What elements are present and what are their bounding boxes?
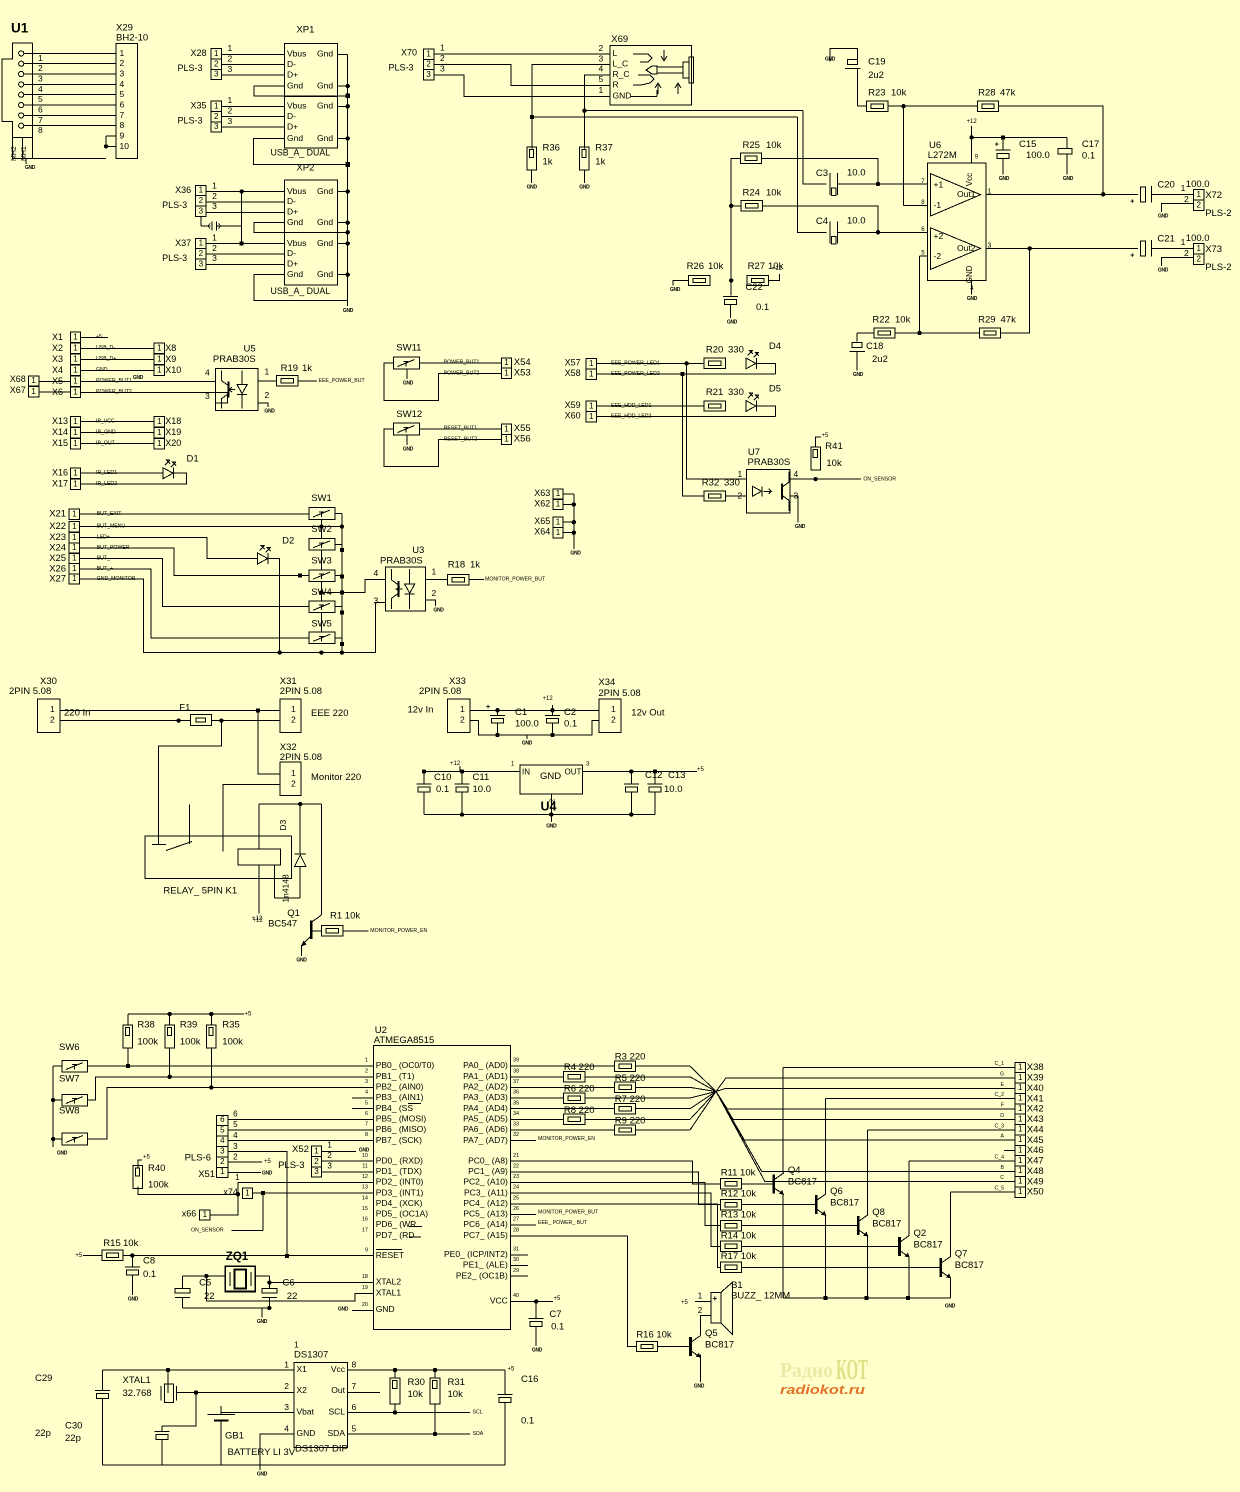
svg-text:BH2-10: BH2-10 xyxy=(116,32,148,43)
svg-text:1: 1 xyxy=(245,1188,250,1197)
wire Q4 collector xyxy=(783,1068,1015,1173)
svg-text:X41: X41 xyxy=(1027,1093,1044,1104)
svg-text:33: 33 xyxy=(513,1122,519,1128)
wire led2 node to R32 xyxy=(683,374,704,496)
svg-text:C5: C5 xyxy=(199,1277,211,1288)
capacitor C3 xyxy=(816,167,866,195)
svg-text:C_1: C_1 xyxy=(994,1061,1004,1067)
connector X30 xyxy=(38,699,61,733)
svg-text:13: 13 xyxy=(362,1185,368,1191)
svg-text:X17: X17 xyxy=(52,479,68,489)
wire Q1 emitter gnd xyxy=(301,945,303,956)
svg-text:C: C xyxy=(1000,1175,1004,1181)
connector X52 PLS-3 xyxy=(278,1144,322,1177)
svg-text:1: 1 xyxy=(460,704,465,714)
svg-text:1: 1 xyxy=(1018,1135,1023,1144)
pin numbers U2 left xyxy=(362,1058,368,1308)
switch SW12 xyxy=(394,409,423,435)
capacitor C17 xyxy=(1058,139,1099,162)
wire led1 node to U7 pin1 xyxy=(687,363,747,479)
ground X62-X65 xyxy=(570,550,581,556)
svg-text:3: 3 xyxy=(120,68,125,78)
svg-text:R25: R25 xyxy=(743,140,760,151)
svg-text:RELAY_ 5PIN K1: RELAY_ 5PIN K1 xyxy=(163,885,237,896)
svg-text:GND: GND xyxy=(1158,213,1169,219)
wire X27 GND_MONITOR bottom rail xyxy=(80,576,376,655)
svg-text:5: 5 xyxy=(599,74,604,84)
svg-text:X1: X1 xyxy=(52,332,63,342)
wire C17 gnd xyxy=(1066,154,1068,175)
connector X32 labels xyxy=(280,742,322,763)
ground C7 xyxy=(532,1347,543,1353)
wires U1 to X29 with pin numbers xyxy=(24,53,116,135)
svg-text:Vbus: Vbus xyxy=(287,49,306,59)
svg-text:0.1: 0.1 xyxy=(756,302,769,313)
svg-text:47k: 47k xyxy=(1000,87,1016,98)
svg-text:1: 1 xyxy=(228,95,233,105)
svg-text:8: 8 xyxy=(365,1132,368,1138)
svg-text:ON_SENSOR: ON_SENSOR xyxy=(863,476,896,482)
svg-text:X2: X2 xyxy=(297,1385,308,1395)
wire D2 down to bottom rail xyxy=(268,559,282,655)
switch SW7 xyxy=(59,1073,88,1105)
svg-text:6: 6 xyxy=(120,99,125,109)
svg-text:C21: C21 xyxy=(1157,233,1174,244)
svg-text:IP_OUT: IP_OUT xyxy=(96,440,116,446)
wire X46 stub xyxy=(1004,1150,1015,1152)
svg-text:6: 6 xyxy=(352,1402,357,1412)
svg-text:D-: D- xyxy=(287,111,296,121)
svg-text:X40: X40 xyxy=(1027,1083,1044,1094)
wire U2 gnd pin xyxy=(338,1306,374,1312)
svg-text:3: 3 xyxy=(228,116,233,126)
svg-text:1: 1 xyxy=(1196,190,1201,199)
svg-text:R16 10k: R16 10k xyxy=(636,1329,672,1340)
wire X69 R_C to R37 and line A xyxy=(582,75,826,184)
capacitor C19 xyxy=(845,56,886,81)
wire U4 input rail xyxy=(422,761,520,774)
svg-text:D-: D- xyxy=(287,196,296,206)
IC U5 body xyxy=(205,367,270,411)
ground R37 xyxy=(579,184,590,190)
ground C15 xyxy=(999,176,1010,182)
capacitor C15 xyxy=(995,139,1050,161)
capacitor C10 xyxy=(417,772,452,815)
wire PC2 to R13 xyxy=(510,1183,720,1226)
capacitor C6 xyxy=(262,1276,297,1308)
svg-text:USB_A_ DUAL: USB_A_ DUAL xyxy=(271,147,331,157)
svg-text:R13 10k: R13 10k xyxy=(721,1210,757,1221)
resistor R40 xyxy=(133,1154,238,1194)
svg-text:X73: X73 xyxy=(1205,244,1222,255)
svg-text:32: 32 xyxy=(513,1132,519,1138)
fuse F1 xyxy=(179,702,211,725)
svg-text:U1: U1 xyxy=(11,21,29,36)
wire out1 to C20 xyxy=(986,193,1138,195)
svg-text:1: 1 xyxy=(365,1058,368,1064)
svg-text:2PIN 5.08: 2PIN 5.08 xyxy=(280,686,322,697)
net label EEE_POWER_BUT pc6 xyxy=(510,1220,588,1226)
wire X51.1 gnd xyxy=(228,1170,273,1182)
svg-text:C8: C8 xyxy=(143,1255,155,1266)
svg-text:0.1: 0.1 xyxy=(143,1269,156,1280)
wires X1-X6 nets xyxy=(81,334,216,395)
wire U3 pin1 to R18 xyxy=(426,579,447,581)
svg-text:22p: 22p xyxy=(35,1428,51,1439)
IC U2 ATMEGA8515 labels xyxy=(374,1025,435,1046)
svg-text:1: 1 xyxy=(157,417,162,426)
svg-text:GND_MONITOR: GND_MONITOR xyxy=(97,576,136,582)
svg-text:R39: R39 xyxy=(180,1020,197,1031)
svg-text:R23: R23 xyxy=(868,87,885,98)
svg-text:3: 3 xyxy=(199,260,204,269)
wire R26 gnd xyxy=(673,281,689,286)
svg-text:X45: X45 xyxy=(1027,1135,1044,1146)
svg-text:GND: GND xyxy=(967,296,978,302)
svg-text:5: 5 xyxy=(120,89,125,99)
svg-text:PD0_ (RXD): PD0_ (RXD) xyxy=(376,1155,423,1165)
svg-text:2: 2 xyxy=(199,249,204,258)
svg-text:XP1: XP1 xyxy=(296,24,314,35)
ground C8 xyxy=(128,1296,139,1302)
svg-text:100k: 100k xyxy=(137,1036,158,1047)
svg-text:2: 2 xyxy=(432,588,437,598)
svg-text:D2: D2 xyxy=(282,536,294,547)
svg-text:X60: X60 xyxy=(565,411,581,421)
wire SW12 gnd xyxy=(406,435,408,445)
net label EEE 220 xyxy=(311,708,349,719)
svg-text:B1: B1 xyxy=(731,1280,743,1291)
svg-text:GND: GND xyxy=(57,1150,68,1156)
svg-text:330: 330 xyxy=(728,387,744,398)
wire Q5 emitter gnd xyxy=(700,1355,702,1383)
svg-text:GND: GND xyxy=(694,1383,705,1389)
svg-text:1k: 1k xyxy=(302,363,312,374)
resistor R24 xyxy=(741,187,781,211)
svg-text:1: 1 xyxy=(440,43,445,53)
svg-text:+: + xyxy=(486,704,490,711)
svg-text:X14: X14 xyxy=(52,427,68,437)
ground X4 net xyxy=(133,375,144,381)
svg-text:G: G xyxy=(1000,1071,1004,1077)
capacitor C11 xyxy=(455,772,492,815)
svg-text:4: 4 xyxy=(205,368,210,378)
svg-text:+: + xyxy=(713,1294,718,1303)
svg-text:+5: +5 xyxy=(264,1159,272,1165)
svg-text:R5 220: R5 220 xyxy=(615,1073,646,1084)
svg-text:2: 2 xyxy=(38,63,43,73)
capacitor C12 xyxy=(624,770,663,815)
connector column X13-X15 xyxy=(52,416,81,449)
resistor R25 xyxy=(740,140,781,164)
net label 12v In xyxy=(408,704,434,715)
svg-text:1: 1 xyxy=(1018,1073,1023,1082)
svg-text:PC1_ (A9): PC1_ (A9) xyxy=(468,1166,508,1176)
wire X52.2 PD0 xyxy=(322,1151,374,1161)
svg-text:1: 1 xyxy=(235,1173,240,1182)
svg-text:2: 2 xyxy=(611,715,616,725)
svg-text:КОТ: КОТ xyxy=(836,1355,868,1386)
svg-text:37: 37 xyxy=(513,1079,519,1085)
wire Q5 collector to buzzer xyxy=(701,1316,711,1336)
svg-text:4: 4 xyxy=(220,1136,225,1145)
svg-text:X13: X13 xyxy=(52,416,68,426)
wire X22 BUT_MENU to bus xyxy=(80,523,345,529)
resistor R31 xyxy=(430,1370,465,1434)
svg-text:Vbus: Vbus xyxy=(287,238,306,248)
resistor R14 10k xyxy=(720,1230,756,1251)
connector X70 PLS-3 xyxy=(389,48,434,81)
svg-text:PLS-6: PLS-6 xyxy=(185,1152,211,1163)
svg-text:PC2_ (A10): PC2_ (A10) xyxy=(463,1177,508,1187)
svg-text:1: 1 xyxy=(157,366,162,375)
wire R14 base xyxy=(742,1245,900,1247)
svg-text:C12: C12 xyxy=(645,770,662,781)
relay K1 label xyxy=(163,885,237,896)
net label ON_SENSOR xyxy=(863,476,896,482)
battery label xyxy=(228,1447,296,1458)
svg-text:L_C: L_C xyxy=(613,59,629,69)
svg-text:GB1: GB1 xyxy=(225,1430,244,1441)
svg-text:2: 2 xyxy=(214,112,219,121)
wire C4 to +2 input xyxy=(838,230,928,234)
svg-text:GND: GND xyxy=(670,287,681,293)
svg-text:1: 1 xyxy=(73,428,78,437)
svg-text:1: 1 xyxy=(228,43,233,53)
svg-text:MONITOR_POWER_EN: MONITOR_POWER_EN xyxy=(538,1136,595,1142)
svg-text:PC5_ (A13): PC5_ (A13) xyxy=(463,1209,508,1219)
wire D5 loop xyxy=(756,406,775,416)
svg-text:27: 27 xyxy=(513,1217,519,1223)
svg-text:radiokot.ru: radiokot.ru xyxy=(780,1383,865,1397)
svg-text:0.1: 0.1 xyxy=(436,784,449,795)
wire R28 to out1 xyxy=(999,106,1106,196)
resistor R30 xyxy=(390,1370,425,1413)
svg-text:SCL: SCL xyxy=(473,1410,483,1416)
LED D5 xyxy=(746,383,781,411)
svg-text:1: 1 xyxy=(589,412,594,421)
wire C19 to R23 xyxy=(857,69,866,107)
wire X73 pin2 gnd xyxy=(1161,258,1193,266)
svg-text:1: 1 xyxy=(589,359,594,368)
wire crystal left xyxy=(182,1274,225,1278)
wire PC7 to R16 xyxy=(510,1236,636,1347)
svg-text:U5: U5 xyxy=(244,343,256,354)
svg-text:2: 2 xyxy=(1196,254,1201,263)
svg-text:1: 1 xyxy=(504,435,509,444)
capacitor C8 xyxy=(125,1255,156,1295)
svg-text:+: + xyxy=(1130,252,1134,259)
svg-text:GND: GND xyxy=(133,375,144,381)
svg-text:X18: X18 xyxy=(165,416,181,426)
resistor R37 xyxy=(580,142,613,169)
svg-text:C22: C22 xyxy=(745,282,762,293)
net label MONITOR_POWER_BUT pc5 xyxy=(510,1210,599,1216)
connector X35 PLS-3 xyxy=(178,101,222,133)
svg-text:220 In: 220 In xyxy=(64,707,90,718)
svg-text:+5: +5 xyxy=(822,433,830,439)
svg-text:1: 1 xyxy=(31,387,36,396)
transistor Q1 xyxy=(253,908,312,947)
transistor Q5 xyxy=(691,1328,735,1358)
resistor R13 10k xyxy=(720,1210,756,1231)
svg-text:1: 1 xyxy=(73,333,78,342)
svg-text:GND: GND xyxy=(570,550,581,556)
svg-text:X1: X1 xyxy=(297,1364,308,1374)
svg-text:3: 3 xyxy=(440,64,445,74)
svg-text:100k: 100k xyxy=(222,1036,243,1047)
svg-text:GND: GND xyxy=(540,771,561,782)
svg-text:C_5: C_5 xyxy=(994,1186,1004,1192)
IC U5 PRAB30S labels xyxy=(213,343,256,365)
svg-text:EEE_HDD_LED2: EEE_HDD_LED2 xyxy=(611,413,651,419)
svg-text:GND: GND xyxy=(264,408,275,414)
svg-text:1: 1 xyxy=(120,48,125,58)
wire Q2 collector xyxy=(909,1161,1015,1235)
connector X34 xyxy=(599,699,621,733)
capacitor C1 xyxy=(486,704,539,735)
connector X65 xyxy=(534,516,563,528)
svg-text:X50: X50 xyxy=(1027,1187,1044,1198)
svg-text:2: 2 xyxy=(1196,200,1201,209)
svg-text:PRAB30S: PRAB30S xyxy=(748,457,791,468)
wire X70.1 to X69 L xyxy=(434,43,610,55)
wires X35 to XP xyxy=(221,95,284,127)
wire X57 net EEE_POWER_LED1 xyxy=(596,360,703,366)
svg-text:D+: D+ xyxy=(287,121,298,131)
svg-text:DS1307 DIP: DS1307 DIP xyxy=(295,1443,348,1454)
svg-text:X16: X16 xyxy=(52,468,68,478)
switch SW8 xyxy=(59,1105,88,1144)
svg-text:1: 1 xyxy=(1018,1166,1023,1175)
wire R12 base xyxy=(742,1204,817,1206)
svg-text:Q2: Q2 xyxy=(914,1228,927,1239)
svg-text:R27: R27 xyxy=(748,261,765,272)
connector X53 xyxy=(501,367,530,378)
transistor Q2 xyxy=(900,1228,943,1258)
svg-text:1: 1 xyxy=(203,1210,208,1219)
svg-text:10.0: 10.0 xyxy=(847,215,866,226)
wire SW11 loop to X53 xyxy=(384,363,501,401)
svg-text:GND: GND xyxy=(1158,267,1169,273)
diode D1 label xyxy=(187,453,199,464)
svg-text:2: 2 xyxy=(599,43,604,53)
wire X31.1 branch to X32.1 xyxy=(258,710,280,774)
svg-text:BC547: BC547 xyxy=(268,918,297,929)
svg-text:10.0: 10.0 xyxy=(847,167,866,178)
IC U1 label xyxy=(11,21,29,36)
svg-text:L272M: L272M xyxy=(928,150,957,161)
wire Q6 emitter xyxy=(825,1216,827,1298)
wire crystal right xyxy=(255,1275,269,1277)
transistor Q6 xyxy=(816,1186,859,1216)
LED D1 xyxy=(163,460,176,479)
svg-text:USB_D-: USB_D- xyxy=(96,345,115,351)
svg-text:PE1_ (ALE): PE1_ (ALE) xyxy=(463,1260,508,1270)
svg-text:2: 2 xyxy=(233,1152,238,1161)
svg-text:GND: GND xyxy=(945,1303,956,1309)
svg-text:POWER_BUT1: POWER_BUT1 xyxy=(444,359,480,365)
ground U4 rail xyxy=(546,815,557,830)
buzzer B1 xyxy=(711,1280,791,1334)
wire SDA xyxy=(348,1431,484,1437)
svg-text:36: 36 xyxy=(513,1090,519,1096)
transistor Q4 xyxy=(774,1165,817,1195)
svg-text:1: 1 xyxy=(294,1340,299,1350)
svg-text:6: 6 xyxy=(38,104,43,114)
wire X26 BUT_plus to SW5 xyxy=(80,566,310,638)
svg-text:R15: R15 xyxy=(103,1238,120,1249)
transistor Q8 xyxy=(858,1207,901,1237)
svg-text:21: 21 xyxy=(513,1153,519,1159)
svg-text:1: 1 xyxy=(504,369,509,378)
capacitor C7 xyxy=(529,1301,565,1346)
IC U4 regulator body xyxy=(520,765,583,802)
svg-text:BC817: BC817 xyxy=(788,1177,817,1188)
svg-text:D-: D- xyxy=(287,59,296,69)
net label ON_SENSOR mcu xyxy=(191,1227,224,1233)
svg-text:10k: 10k xyxy=(448,1389,464,1400)
svg-text:BC817: BC817 xyxy=(914,1239,943,1250)
svg-text:1: 1 xyxy=(31,376,36,385)
svg-text:C4: C4 xyxy=(816,216,828,227)
wire U1 ground xyxy=(26,159,106,164)
svg-text:GND: GND xyxy=(296,957,307,963)
switch SW4 xyxy=(309,587,335,612)
resistor R16 xyxy=(636,1329,672,1351)
svg-text:100.0: 100.0 xyxy=(1186,233,1210,244)
svg-text:DS1307: DS1307 xyxy=(294,1349,328,1360)
wire top horizontal relay xyxy=(259,802,322,806)
connector x74 xyxy=(223,1187,252,1199)
svg-text:SW12: SW12 xyxy=(396,409,422,420)
wire C15 gnd xyxy=(1002,159,1004,175)
wire C3 to +1 input xyxy=(838,182,928,186)
wire C21 to X73 xyxy=(1152,237,1194,258)
svg-text:3: 3 xyxy=(374,596,379,606)
wire SCL xyxy=(348,1410,483,1416)
resistor R4 220 xyxy=(510,1062,690,1082)
svg-text:3: 3 xyxy=(214,122,219,131)
svg-text:+5: +5 xyxy=(508,1367,516,1373)
svg-text:X39: X39 xyxy=(1027,1072,1044,1083)
svg-text:X23: X23 xyxy=(49,532,66,543)
wire coil right to D3 xyxy=(275,865,301,898)
connector X58 xyxy=(565,368,597,379)
svg-text:Vbus: Vbus xyxy=(287,101,306,111)
resistor R41 xyxy=(811,441,843,470)
svg-text:X42: X42 xyxy=(1027,1104,1044,1115)
svg-text:+12: +12 xyxy=(253,918,264,924)
svg-text:EEE_POWER_LED2: EEE_POWER_LED2 xyxy=(611,371,660,377)
connector XP1 label xyxy=(296,24,314,35)
svg-text:1: 1 xyxy=(220,1167,225,1176)
svg-text:PB7_ (SCK): PB7_ (SCK) xyxy=(376,1135,422,1145)
svg-text:B: B xyxy=(1001,1165,1005,1171)
wire R13 base xyxy=(742,1225,859,1227)
svg-text:8: 8 xyxy=(352,1360,357,1370)
svg-text:PLS-3: PLS-3 xyxy=(178,63,203,73)
wire x66 to PD2 xyxy=(210,1183,374,1216)
svg-text:1: 1 xyxy=(556,489,561,498)
svg-text:4: 4 xyxy=(233,1131,238,1140)
ground crystal xyxy=(257,1319,268,1325)
svg-text:GND: GND xyxy=(579,184,590,190)
svg-text:2: 2 xyxy=(212,243,217,253)
svg-text:D3: D3 xyxy=(278,819,288,830)
svg-text:C7: C7 xyxy=(549,1309,561,1320)
svg-text:Q8: Q8 xyxy=(872,1207,885,1218)
